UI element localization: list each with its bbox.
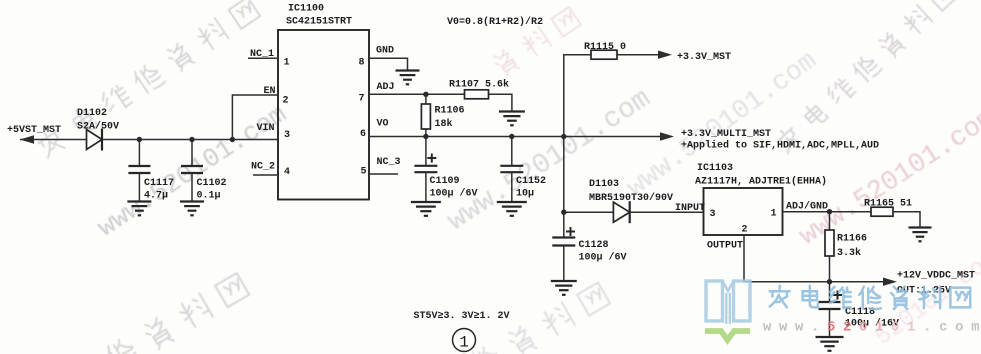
plus mark C1128 <box>566 227 575 236</box>
svg-text:ST5V≥3. 3V≥1. 2V: ST5V≥3. 3V≥1. 2V <box>414 311 510 322</box>
wire ADJ to R1106 <box>425 94 427 104</box>
pin 5 stub NC_3 <box>369 173 398 175</box>
svg-text:EN: EN <box>264 86 276 97</box>
regulator IC1103 body <box>704 188 783 235</box>
wire VO to C1152 <box>511 137 513 166</box>
svg-text:V0=0.8(R1+R2)/R2: V0=0.8(R1+R2)/R2 <box>447 16 543 28</box>
svg-text:2: 2 <box>283 96 289 107</box>
capacitor C1118 <box>819 302 841 309</box>
svg-text:NC_2: NC_2 <box>251 162 275 173</box>
resistor R1166 <box>825 230 834 256</box>
svg-text:C1152: C1152 <box>516 176 546 187</box>
svg-text:2: 2 <box>742 225 748 236</box>
svg-text:R1107 5.6k: R1107 5.6k <box>449 79 509 91</box>
plus mark C1118 <box>833 291 842 300</box>
sheet number circle 1 <box>453 329 476 352</box>
wire VO rail <box>369 136 661 138</box>
capacitor C1117 <box>128 166 150 173</box>
wire D1103 to IC1103 pin 3 <box>630 211 704 213</box>
junction C1109 tap <box>423 134 428 139</box>
svg-text:+5VST_MST: +5VST_MST <box>7 125 61 136</box>
svg-text:C1128: C1128 <box>579 240 609 251</box>
svg-text:GND: GND <box>376 46 394 57</box>
svg-text:ADJ: ADJ <box>377 82 395 93</box>
svg-text:1: 1 <box>771 209 777 220</box>
wire VO to C1109 <box>425 137 427 166</box>
resistor R1107 <box>465 90 489 99</box>
wire C1118 to ground <box>829 310 831 337</box>
svg-text:0.1μ: 0.1μ <box>197 191 221 202</box>
svg-text:NC_1: NC_1 <box>250 49 274 60</box>
svg-text:MBR5190T30/90V: MBR5190T30/90V <box>589 192 673 204</box>
diode D1102 <box>87 129 103 151</box>
ground below C1102 <box>180 202 204 216</box>
svg-text:+3.3V_MULTI_MST: +3.3V_MULTI_MST <box>681 129 771 140</box>
svg-text:VO: VO <box>377 119 389 130</box>
svg-text:4: 4 <box>284 167 290 178</box>
svg-text:INPUT: INPUT <box>675 203 705 214</box>
wire C1109 to ground <box>425 173 427 203</box>
svg-text:C1109: C1109 <box>430 176 460 187</box>
svg-text:D1102: D1102 <box>77 108 107 119</box>
pin 4 stub NC_2 <box>253 174 278 176</box>
svg-text:www.520101.com: www.520101.com <box>763 320 981 336</box>
wire riser to R1115 <box>564 55 591 137</box>
ground below C1118 <box>816 337 844 351</box>
arrow +3.3V_MST <box>658 51 672 59</box>
ground after R1165 <box>909 228 932 242</box>
wire EN to pin 2 <box>232 95 278 140</box>
arrow +3.3V_MULTI_MST <box>660 132 674 140</box>
svg-text:OUTPUT: OUTPUT <box>707 241 743 252</box>
wire node to D1103 <box>564 211 614 213</box>
svg-text:1: 1 <box>284 58 290 69</box>
wire rail to C1118 <box>829 282 831 302</box>
ground below C1117 <box>127 202 151 216</box>
capacitor C1109 <box>414 166 437 172</box>
wire C1117 to ground <box>138 174 140 202</box>
svg-text:S2A/50V: S2A/50V <box>77 121 119 133</box>
wire C1102 to ground <box>191 174 193 202</box>
pin 8 wire to ground <box>369 58 408 70</box>
wire +5VST to D1102 anode <box>20 139 86 141</box>
junction ADJ/R1106 <box>423 92 428 97</box>
wire R1166 to 12V rail <box>829 256 831 282</box>
arrow +5VST_MST <box>20 135 34 143</box>
junction riser tap <box>561 134 566 139</box>
diode D1103 <box>613 201 629 223</box>
wire C1152 to ground <box>511 173 513 203</box>
svg-text:AZ1117H, ADJTRE1(EHHA): AZ1117H, ADJTRE1(EHHA) <box>695 176 827 188</box>
plus mark C1109 <box>427 154 436 163</box>
svg-text:3: 3 <box>710 209 716 220</box>
svg-text:5: 5 <box>361 167 367 178</box>
svg-text:C1102: C1102 <box>197 178 227 189</box>
svg-text:+Applied to SIF,HDMI,ADC,MPLL,: +Applied to SIF,HDMI,ADC,MPLL,AUD <box>681 140 879 152</box>
wire to C1128 <box>563 212 565 237</box>
wire OUTPUT to 12V rail <box>744 235 884 282</box>
svg-text:SC42151STRT: SC42151STRT <box>286 17 352 28</box>
junction C1152 tap <box>509 134 514 139</box>
svg-text:6: 6 <box>360 129 366 140</box>
svg-text:3: 3 <box>284 130 290 141</box>
svg-text:NC_3: NC_3 <box>377 157 401 168</box>
svg-text:D1103: D1103 <box>589 179 619 190</box>
junction EN tap <box>230 137 235 142</box>
svg-text:+3.3V_MST: +3.3V_MST <box>677 52 731 63</box>
junction C1118 tap <box>827 279 832 284</box>
wire R1107 to ground <box>489 94 512 111</box>
svg-text:3.3k: 3.3k <box>837 247 861 259</box>
svg-text:C1117: C1117 <box>144 178 174 189</box>
wire riser to INPUT node <box>563 137 565 213</box>
capacitor C1128 <box>552 238 575 246</box>
svg-text:R1106: R1106 <box>435 106 465 117</box>
svg-text:+12V_VDDC_MST: +12V_VDDC_MST <box>897 271 975 282</box>
wire R1165 to ground <box>893 212 920 227</box>
svg-text:IC1100: IC1100 <box>288 4 324 15</box>
svg-text:8: 8 <box>359 58 365 69</box>
svg-text:100μ /6V: 100μ /6V <box>579 252 627 264</box>
wire pin1 ADJ/GND <box>783 211 872 213</box>
junction C1102 tap <box>189 137 194 142</box>
svg-text:10μ: 10μ <box>516 189 534 200</box>
ground after R1107 <box>499 112 525 126</box>
ground below C1109 <box>411 202 441 216</box>
svg-text:100μ /6V: 100μ /6V <box>430 188 478 200</box>
pin 1 stub NC_1 <box>248 57 278 59</box>
wire D1102 cathode to VIN pin 3 <box>102 139 278 141</box>
svg-text:ADJ/GND: ADJ/GND <box>786 201 828 213</box>
resistor R1115 <box>591 50 617 59</box>
ground below C1128 <box>551 281 577 295</box>
svg-text:VIN: VIN <box>257 123 275 134</box>
wire R1106 to VO rail <box>425 129 427 137</box>
capacitor C1102 <box>181 166 203 173</box>
capacitor C1152 <box>500 166 523 172</box>
wire to C1117 <box>138 140 140 166</box>
svg-text:18k: 18k <box>435 118 453 130</box>
junction INPUT/C1128 <box>561 210 566 215</box>
arrow +12V_VDDC_MST <box>883 278 897 286</box>
svg-text:IC1103: IC1103 <box>697 163 733 174</box>
wire node to R1166 <box>829 212 831 230</box>
wire to C1102 <box>191 140 193 166</box>
pin 7 ADJ wire <box>369 93 465 95</box>
ground below C1152 <box>497 202 527 216</box>
svg-text:1: 1 <box>459 334 469 352</box>
wire C1128 to ground <box>563 246 565 281</box>
resistor R1165 <box>871 207 893 216</box>
svg-text:R1166: R1166 <box>837 234 867 245</box>
op-amp/regulator IC1100 body <box>278 30 369 200</box>
resistor R1106 <box>421 104 430 129</box>
junction R1166 tap <box>827 209 832 214</box>
ground pin 8 <box>396 71 420 85</box>
svg-text:7: 7 <box>359 94 365 105</box>
junction C1117 tap <box>137 137 142 142</box>
svg-text:4.7μ: 4.7μ <box>144 191 168 202</box>
wire R1115 to arrow <box>617 54 659 56</box>
